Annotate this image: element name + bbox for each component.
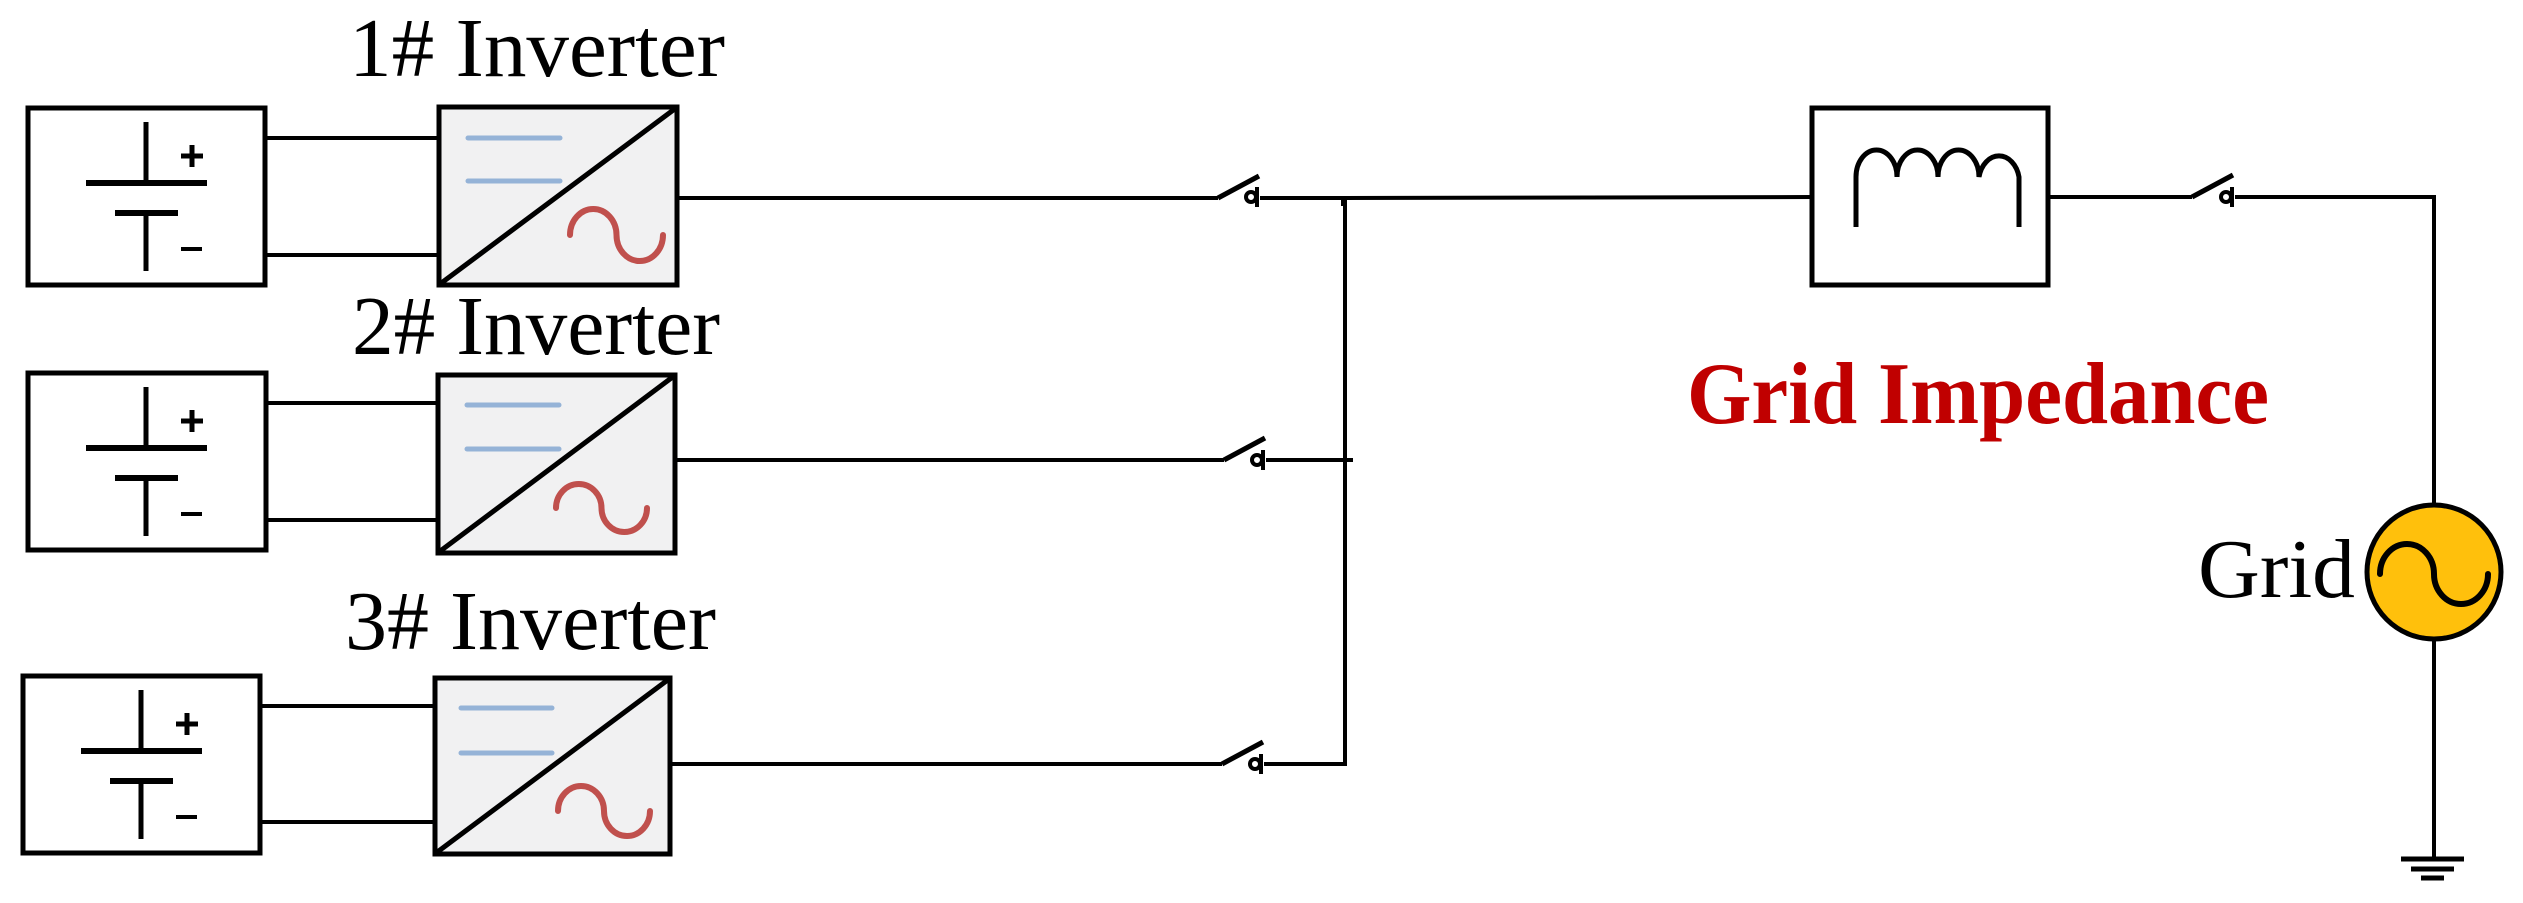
switch S2 [1224, 438, 1265, 470]
AC source V1 (Grid) [2367, 505, 2501, 639]
svg-text:1# Inverter: 1# Inverter [349, 2, 725, 95]
inverter U2 [438, 375, 675, 553]
battery B2 [28, 373, 266, 550]
wire corner down to grid source V1 [2432, 195, 2436, 506]
wire node A to inductor L1 [1345, 197, 1814, 198]
label "3# Inverter" [345, 575, 716, 668]
label "1# Inverter" [349, 2, 725, 95]
label "Grid" [2198, 523, 2355, 616]
bus wire (vertical PCC bus) [1343, 198, 1347, 766]
wire battery B1 negative to inverter U1 [263, 253, 441, 257]
label "2# Inverter" [352, 280, 720, 373]
svg-text:Grid Impedance: Grid Impedance [1687, 346, 2269, 443]
switch S1 [1218, 176, 1259, 207]
wire switch S4 to corner [2235, 195, 2436, 199]
wire inductor L1 to switch S4 [2046, 195, 2192, 199]
wire battery B3 positive to inverter U3 [258, 704, 437, 708]
wire inverter U3 output to switch S3 [670, 762, 1222, 766]
inverter U1 [439, 107, 677, 285]
battery B3 [23, 676, 260, 853]
wire inverter U1 output to switch S1 [677, 196, 1218, 200]
switch S4 [2192, 175, 2233, 207]
svg-text:Grid: Grid [2198, 523, 2355, 616]
wire switch S3 to bus corner [1264, 762, 1347, 766]
svg-text:2# Inverter: 2# Inverter [352, 280, 720, 373]
wire switch S1 to node A [1260, 196, 1345, 200]
node A (PCC bus tee) [1341, 198, 1345, 206]
wire battery B1 positive to inverter U1 [263, 136, 441, 140]
wire battery B2 positive to inverter U2 [264, 401, 440, 405]
label "Grid Impedance" [1687, 346, 2269, 443]
wire battery B2 negative to inverter U2 [264, 518, 440, 522]
battery B1 [28, 108, 265, 285]
wire battery B3 negative to inverter U3 [258, 820, 437, 824]
svg-text:3# Inverter: 3# Inverter [345, 575, 716, 668]
wire inverter U2 output to switch S2 [675, 458, 1224, 462]
inductor L1 box (grid impedance) [1812, 108, 2048, 285]
wire grid source V1 to ground [2432, 638, 2436, 859]
switch S3 [1222, 742, 1263, 774]
inverter U3 [435, 678, 670, 854]
wire switch S2 to node B (bus junction) [1266, 458, 1353, 462]
ground [2401, 859, 2464, 878]
